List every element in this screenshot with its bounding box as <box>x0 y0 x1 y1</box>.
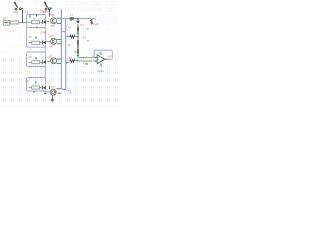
power rail horizontal top right <box>61 18 95 20</box>
junction node row1/switch1 <box>22 22 23 23</box>
svg-text:R?: R? <box>69 56 73 60</box>
bus tail bottom <box>66 89 71 95</box>
diode D1 row1 <box>43 18 46 25</box>
feedback loop wire op-amp <box>94 50 112 59</box>
row4 wire start <box>29 87 32 89</box>
wire switch1 down <box>22 10 24 22</box>
wire between buses <box>62 31 66 33</box>
ghost grid block top right <box>66 1 118 25</box>
diode D4 row4 <box>42 86 44 90</box>
diode on vertical chain top <box>76 19 80 24</box>
pin tick below box4 left <box>33 91 35 93</box>
bus link box2-box3 <box>44 47 46 52</box>
chain tick <box>77 32 79 34</box>
row3 wire to transistor <box>47 60 51 62</box>
junction green at bus turn <box>66 62 68 63</box>
chain component Z1 <box>77 27 79 32</box>
wire -in to op-amp <box>78 56 97 58</box>
svg-text:D?#1: D?#1 <box>40 10 47 14</box>
svg-text:R?: R? <box>26 79 30 83</box>
pin tick box1 bottom <box>36 26 38 28</box>
op-amp U1 <box>95 52 107 66</box>
vertical chain line x78 <box>77 24 79 57</box>
row3 wire start <box>29 61 32 63</box>
rail junction <box>77 18 78 19</box>
svg-text:Q?: Q? <box>50 34 54 38</box>
wire op-amp output <box>107 58 112 60</box>
net stub right of chain lower <box>87 40 89 42</box>
chain tick2 <box>77 46 79 48</box>
bus line right vertical <box>64 19 66 90</box>
wire row1 to transistor <box>47 21 50 23</box>
resistor R3 row2 <box>32 41 40 44</box>
svg-text:R?: R? <box>68 43 72 47</box>
bus stub to +in wire <box>66 61 70 63</box>
resistor on chain feed wire <box>70 35 75 38</box>
transistor Q4 <box>50 89 61 95</box>
svg-text:K1: K1 <box>25 10 29 14</box>
transistor Q3 <box>51 58 62 64</box>
row2 wire mid <box>40 42 43 44</box>
diode D2 row2 <box>43 41 46 45</box>
svg-text:D?#2: D?#2 <box>40 30 47 34</box>
svg-text:R?: R? <box>29 35 33 39</box>
svg-text:Q?: Q? <box>49 55 53 59</box>
resistor R2 row1 <box>32 21 40 24</box>
ground under Q4 <box>50 98 54 102</box>
switch SW2 <box>44 2 52 10</box>
row2 wire start tick <box>29 42 32 44</box>
green tick on +in wire right <box>76 59 78 61</box>
svg-text:BT?: BT? <box>3 17 8 21</box>
resistor R5 row4 <box>32 86 40 89</box>
resistor R4 row3 <box>32 61 40 64</box>
green tick on rail <box>70 19 72 21</box>
green tick row4 <box>35 81 37 83</box>
pin tick below box4 <box>44 93 47 95</box>
row4 wire mid <box>40 87 43 89</box>
svg-text:2N?: 2N? <box>51 44 56 48</box>
svg-text:R?: R? <box>68 26 72 30</box>
wire switch2 down <box>49 10 51 17</box>
pin tick row1 box left <box>29 15 31 17</box>
chain node junction <box>77 36 78 37</box>
bus link box3-box4 <box>44 67 46 78</box>
svg-text:PW?: PW? <box>93 22 99 26</box>
svg-text:1k?: 1k? <box>83 55 88 59</box>
battery BT1 <box>3 21 10 26</box>
svg-text:U?: U? <box>95 52 99 56</box>
row4 wire to transistor <box>45 91 51 93</box>
diode D3 row3 <box>42 60 44 64</box>
svg-text:out: out <box>107 54 111 58</box>
wire row1 mid <box>40 21 43 23</box>
svg-text:Q?: Q? <box>52 13 56 17</box>
wire collector Q4 <box>49 86 51 89</box>
svg-text:R?: R? <box>29 55 33 59</box>
chain bottom tick <box>77 55 79 57</box>
svg-text:GND: GND <box>98 69 104 73</box>
green tick below +in wire <box>85 63 88 65</box>
sheet box B1 (rows 1) <box>27 15 46 28</box>
transistor Q2 <box>51 38 62 44</box>
svg-text:Q?: Q? <box>52 85 56 89</box>
wire row1 from battery <box>19 21 32 23</box>
bus link below box4 <box>44 91 46 94</box>
ground at rail end <box>90 19 94 25</box>
component on power rail <box>70 17 74 19</box>
svg-text:SW?: SW? <box>13 10 19 14</box>
wire from bus to chain node <box>66 36 77 38</box>
switch SW1 <box>14 2 23 10</box>
net stub right of chain upper <box>87 28 89 30</box>
chain component Z2 <box>77 40 79 45</box>
sheet box B4 (row 4) <box>27 78 46 92</box>
transistor Q1 <box>51 18 62 24</box>
wire Q4 emitter down <box>51 96 53 99</box>
chain component Z3 <box>77 49 79 54</box>
resistor R1 <box>11 21 19 24</box>
svg-text:R?: R? <box>83 36 87 40</box>
svg-text:2N?: 2N? <box>50 24 55 28</box>
sheet box B3 (row 3) <box>27 52 46 67</box>
pin tick row1 box top <box>36 14 38 17</box>
green tick row3 <box>35 57 37 59</box>
svg-text:D?: D? <box>80 23 84 27</box>
row2 wire to transistor <box>47 41 51 43</box>
bus line left vertical <box>61 9 63 90</box>
row3 wire mid <box>40 61 43 63</box>
green tick row2 <box>35 37 37 39</box>
sheet box B2 (row 2) <box>27 28 46 48</box>
pin tick above +in resistor <box>75 51 77 53</box>
resistor on +in wire <box>70 60 75 63</box>
wire +in to op-amp <box>76 60 96 62</box>
